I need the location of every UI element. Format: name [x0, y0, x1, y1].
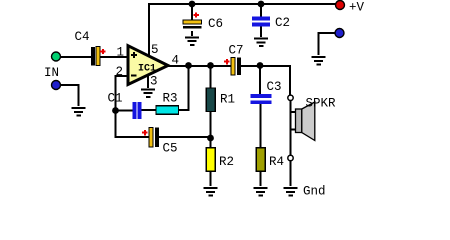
svg-text:R2: R2 [219, 155, 234, 169]
ground R2 [204, 187, 218, 197]
svg-text:R1: R1 [220, 93, 235, 107]
ground SPKR [284, 187, 298, 197]
terminal IN+ green [52, 52, 61, 61]
wire C1 to node A [116, 110, 134, 112]
svg-text:4: 4 [172, 54, 180, 68]
svg-text:IN: IN [44, 66, 59, 80]
svg-text:R4: R4 [269, 155, 284, 169]
speaker SPKR [296, 97, 337, 141]
wire IN- to ground [61, 85, 79, 106]
svg-text:C3: C3 [267, 80, 282, 94]
svg-text:C7: C7 [229, 44, 244, 58]
resistor R2 [206, 148, 234, 172]
wire C5 to node R2 [158, 136, 211, 138]
svg-text:5: 5 [151, 43, 159, 57]
capacitor C5 [142, 128, 178, 156]
wire node A to pin 2 [116, 76, 130, 111]
wire C3 top stem [259, 66, 261, 95]
resistor R3 [156, 92, 179, 115]
op-amp IC1 [128, 46, 168, 85]
junction R1 output [207, 62, 214, 69]
resistor R1 [206, 88, 235, 112]
ground C2 [254, 38, 268, 48]
junction C5 R2 [207, 135, 214, 142]
svg-text:2: 2 [116, 65, 124, 79]
wire pin 3 to ground [147, 76, 149, 88]
svg-text:Gnd: Gnd [303, 185, 326, 199]
capacitor C2 [252, 16, 290, 30]
wire output to R3 [178, 66, 189, 110]
wire node A to C5 [116, 110, 150, 137]
terminal +V red [336, 1, 345, 10]
wire pin 5 to +V rail [149, 4, 340, 57]
svg-text:3: 3 [150, 75, 158, 89]
junction C2 rail [258, 1, 265, 8]
svg-text:+V: +V [349, 1, 365, 15]
wire output pin 4 [166, 65, 231, 67]
capacitor C7 [224, 44, 244, 76]
wire IN+ to C4 [60, 56, 92, 58]
svg-text:SPKR: SPKR [306, 97, 337, 111]
capacitor C1 [108, 92, 142, 120]
svg-text:C6: C6 [208, 17, 223, 31]
wire speaker vertical [290, 100, 292, 156]
svg-text:IC1: IC1 [138, 64, 156, 75]
wire R4 to ground [260, 171, 262, 186]
ground IN [72, 107, 86, 117]
wire output to R1 [210, 66, 212, 89]
speaker terminal bottom [288, 155, 293, 160]
wire C4 to pin 1 [99, 56, 129, 58]
wire node to R2 [210, 137, 212, 148]
wire speaker stub top [291, 111, 297, 113]
ground R4 [254, 187, 268, 197]
wire speaker stub bottom [291, 129, 297, 131]
svg-text:C5: C5 [163, 142, 178, 156]
ground pin 3 [141, 88, 155, 98]
wire C2 stem top [260, 4, 262, 18]
wire C6 stem top [191, 4, 193, 21]
capacitor C6 [183, 12, 223, 31]
junction C3 output [257, 62, 264, 69]
wire C7 to speaker top [240, 66, 290, 96]
terminal IN- blue [52, 81, 61, 90]
ground -V [312, 56, 326, 66]
speaker terminal top [288, 95, 293, 100]
wire R1 to node C5/R2 [210, 111, 212, 138]
wire C6 to ground [191, 31, 193, 36]
svg-text:R3: R3 [163, 92, 178, 106]
capacitor C4 [75, 30, 106, 66]
junction R3 output [185, 62, 192, 69]
resistor R4 [256, 148, 284, 172]
wire C3 to R4 [260, 104, 262, 148]
svg-text:C1: C1 [108, 92, 123, 106]
terminal -V blue [335, 29, 344, 38]
capacitor C3 [251, 80, 282, 104]
svg-text:1: 1 [117, 46, 125, 60]
ground C6 [185, 36, 199, 46]
wire -V terminal to ground [319, 33, 336, 55]
svg-text:C2: C2 [275, 16, 290, 30]
wire R2 to ground [210, 171, 212, 186]
wire R3 to C1 [141, 109, 156, 111]
wire speaker bottom to Gnd [290, 160, 292, 186]
junction C6 rail [189, 1, 196, 8]
svg-text:C4: C4 [75, 30, 90, 44]
wire C2 to ground [260, 26, 262, 37]
node A junction C1 [112, 107, 119, 114]
